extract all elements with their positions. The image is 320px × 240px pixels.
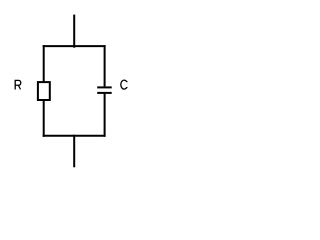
wire right branch lower bbox=[104, 94, 106, 137]
wire right branch upper bbox=[104, 45, 106, 86]
wire left branch lower bbox=[43, 100, 45, 137]
wire top terminal bbox=[73, 15, 75, 48]
label R bbox=[15, 80, 21, 89]
resistor R bbox=[38, 82, 50, 100]
wire bottom horizontal bbox=[43, 135, 106, 137]
capacitor C top plate bbox=[97, 86, 112, 88]
wire top horizontal bbox=[43, 45, 106, 47]
wire left branch upper bbox=[43, 45, 45, 82]
label C bbox=[121, 80, 128, 89]
wire bottom terminal bbox=[73, 135, 75, 168]
capacitor C bottom plate bbox=[97, 92, 112, 94]
